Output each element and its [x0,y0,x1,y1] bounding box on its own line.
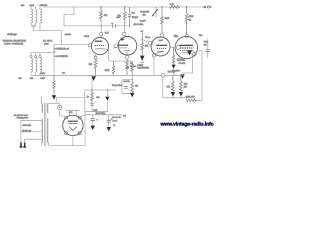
resistor R 47k feedback [131,61,134,75]
node dot junction x186 [186,6,188,8]
svg-text:+: + [54,51,56,54]
tube V2 cathode [123,51,130,56]
wire B+ top rail [44,6,203,8]
svg-text:+punto: +punto [65,33,72,36]
tube V5 rectifier envelope [63,115,83,135]
wire V2 plate lead [123,26,125,32]
svg-text:point: point [44,42,49,45]
capacitor bypass in loop [124,87,128,89]
svg-text:0.1: 0.1 [189,18,193,21]
wire tap stubs [31,45,54,56]
pin circle V2 grid [114,44,118,48]
pin circle V2 plate [123,32,126,35]
tube V3 envelope [151,37,170,56]
svg-text:1M: 1M [143,14,146,17]
wire grid line to V1 [54,44,88,47]
svg-text:+2 4A5: +2 4A5 [178,62,185,65]
svg-text:TENSIONI RILEVATE IN: TENSIONI RILEVATE IN [3,40,27,43]
capacitor filter C1 [92,115,94,119]
svg-text:+2k: +2k [135,84,139,87]
svg-text:[+: [+ [114,124,117,127]
pin circle V4 grid [176,45,180,49]
pin circle V2 cathode [125,55,129,59]
resistor R bleeder2 [180,75,183,91]
svg-text:6SJ7: 6SJ7 [159,39,164,42]
svg-text:On Treble: On Treble [123,80,130,83]
tube V4 screen [180,47,194,49]
ground C1 [91,126,95,130]
wire rail drop x74 jog x64 [64,7,74,26]
tube V1 cathode [95,48,108,51]
wire plate bus y25.9 [64,25,130,27]
node dot [100,6,101,7]
resistor R cathode V1 [94,55,97,76]
tube V3 plate [156,44,167,46]
svg-text:+6,3v: +6,3v [40,72,46,75]
resistor R grid stopper V3 100k [161,7,164,34]
svg-text:7W+: 7W+ [204,41,209,44]
T2 secondary winding [47,104,48,143]
svg-text:0.05: 0.05 [105,32,110,35]
svg-text:(1 Watt): (1 Watt) [177,58,184,61]
svg-text:+1: +1 [111,22,113,25]
tube V2 envelope [118,37,137,56]
capacitor filter C2 [108,115,110,120]
svg-text:1k: 1k [87,95,90,98]
pin circle V3 grid [149,41,153,45]
tube V3 cathode [155,51,164,54]
svg-text:+: + [96,119,98,122]
svg-text:5 e 4 = F: 5 e 4 = F [113,116,122,119]
wire main bus y75.3 [31,74,185,76]
tube V4 grid [180,50,194,52]
wire windings to bus [31,73,40,76]
svg-text:350Ω 5W: 350Ω 5W [186,95,196,98]
wire B+ from rectifier [81,115,122,117]
T2 core [44,103,46,147]
svg-text:+0k: +0k [30,77,34,80]
wire to V3 grid [142,40,148,43]
resistor R filter x92 [91,90,94,104]
resistor R series 2.2k on rail [170,6,180,9]
ground arrow on bus [91,76,96,81]
pin circles V5 [65,116,68,119]
wire loop left branch [122,80,132,94]
wire mains tap3 [25,138,42,140]
svg-text:50+60 c/s: 50+60 c/s [22,130,32,133]
wire feed from left [56,97,85,99]
svg-text:47k: 47k [104,14,108,17]
capacitor C 500pF x129.5 [128,7,131,26]
wire anode leads above V5 [66,110,80,115]
svg-text:A-VDC POSIZIONE: A-VDC POSIZIONE [4,43,24,46]
wire mains left down [21,120,25,142]
node dot [124,6,125,7]
tube V4 cathode [183,53,193,54]
ground bias [52,95,56,99]
resistor R 350 series [185,98,187,101]
svg-text:Changeover: Changeover [17,117,29,120]
wire mains tap1 [21,119,42,121]
svg-text:2 e 8: 2 e 8 [113,120,118,123]
svg-text:www.vintage-radio.info: www.vintage-radio.info [160,122,214,128]
pin circle V1 cathode [94,56,97,59]
wire V5 bottom lead [72,136,74,146]
svg-text:«Kellogg»: «Kellogg» [7,33,18,36]
resistor R 47k plate load V2 [124,7,127,26]
svg-text:0.1uF: 0.1uF [140,20,146,23]
ground hum network [130,93,134,97]
svg-text:+C: +C [140,30,143,33]
resistor R grid V4 220k [185,7,188,35]
resistor R 220k feedback [112,61,115,75]
node dot plate junction [142,39,143,40]
svg-text:100 Volts: 100 Volts [23,124,32,127]
wire bottom return [50,112,85,146]
tube V2 plate [119,44,129,46]
wire B+ drop to filter [91,75,93,90]
wire third winding down [39,23,41,31]
tube V1 plate [95,40,103,42]
capacitor filter polarized x92 [90,104,94,106]
wire T2 sec top to jack [48,102,50,104]
svg-text:0.5: 0.5 [204,43,208,46]
svg-text:100k: 100k [165,17,170,20]
pin circle V3 cathode [152,54,156,58]
resistor R shared cathode 1W [170,46,174,48]
resistor R hum x132 [131,82,134,92]
tube V1 envelope [91,38,108,55]
pin circle V4 cathode [192,52,196,56]
svg-text:220k: 220k [189,15,194,18]
svg-text:med.: med. [30,4,35,7]
pin circle V4 top [185,35,188,38]
interstage transformer T1 lower windings [31,58,42,72]
svg-text:+2x: +2x [96,96,100,99]
wire lower bus [163,97,187,99]
potentiometer VOLUME 1M [152,7,158,18]
svg-text:20uF 450v: 20uF 450v [96,112,107,115]
svg-text:+ LOUDSPKR: + LOUDSPKR [54,55,68,58]
wire bus y30.5 [33,30,61,32]
svg-text:Se «Dual» say*: Se «Dual» say* [14,114,28,117]
feedback network box top wire [109,60,133,62]
tube V5 filament [69,127,77,131]
svg-text:5W: 5W [184,85,188,88]
wire drop x132 [131,75,133,82]
tube V5 anode plates [68,120,78,122]
wire V3 cathode to bus [153,57,155,75]
jack pilot circle [58,105,62,109]
svg-text:+1k: +1k [184,83,188,86]
wire mains tap2 [21,131,42,133]
filter RC box [56,75,116,112]
plate chain resistor between V2 V3 [141,33,144,55]
tone cap branch right [204,39,210,59]
svg-text:+ B: + B [123,115,127,118]
pin circles winding taps [30,56,32,58]
svg-text:CALIBRATE: CALIBRATE [137,66,149,69]
svg-text:catodo: catodo [130,65,137,68]
capacitor electrolytic cathode bypass V4 [187,50,192,55]
capacitor electrolytic x107 [106,90,108,97]
wire filter bottom [85,111,108,113]
wire box left [108,50,110,61]
wire filter top [85,89,116,91]
svg-text:+«TREBLE» off: +«TREBLE» off [54,47,69,50]
capacitor electrolytic shared [172,65,176,69]
resistor R cathode V2 [126,59,129,75]
svg-text:+250 B+: +250 B+ [40,4,49,7]
node dot [101,25,102,26]
T2 primary winding [42,104,43,113]
svg-text:Trasf. driver: Trasf. driver [112,84,123,87]
resistor R 47k plate load V1 [100,7,103,22]
bleeder network right [163,51,202,102]
tube V4 plate [180,44,194,46]
capacitor C-coupling series x114 [113,24,116,28]
tube V4 output envelope [175,36,197,58]
svg-text:47k: 47k [166,86,170,89]
terminal output arrow + [202,6,212,8]
svg-text:VOLUME: VOLUME [140,10,150,13]
interstage transformer T1 top windings [31,7,42,27]
svg-text:2.2k: 2.2k [170,3,175,6]
wire V4 cathode return [183,56,194,73]
svg-text:Triodi: Triodi [84,35,90,38]
wire V1 plate lead [100,22,102,32]
svg-text:22k: 22k [145,44,149,47]
tube V2 top cap blob [121,37,125,40]
svg-text:a-b: a-b [62,71,66,74]
svg-text:500pF: 500pF [132,16,139,19]
svg-text:+.05: +.05 [116,16,119,19]
wire from terminal down [162,77,164,98]
hum balance network below bus [112,75,139,97]
svg-text:5Y3: 5Y3 [69,111,73,114]
pin circle V3 top [160,34,163,37]
svg-text:I.C. +VDC: I.C. +VDC [43,39,53,42]
power transformer T2 [42,97,49,147]
svg-text:+0uF: +0uF [40,77,46,80]
tube V2 grid [119,47,126,49]
svg-text:alto: alto [21,4,25,7]
pin circle V1 grid input [88,44,91,47]
tube V3 screen [157,47,166,49]
svg-text:220k: 220k [105,69,110,72]
wire center tap down [32,26,34,30]
resistor R bleeder1 [172,75,175,91]
capacitor electrolytic chain [140,56,145,61]
wire grid leak vertical [53,45,55,76]
pin circle V1 plate [100,32,103,35]
terminal circle junction on bus [161,74,165,78]
svg-text:+0k: +0k [18,77,22,80]
wire jack to rectifier [60,110,65,116]
svg-text:+0k 5W +: +0k 5W + [172,70,182,73]
wire jack top [49,98,60,106]
mains plug [20,143,26,148]
svg-text:silver mica: silver mica [134,23,144,26]
svg-text:+B+: +B+ [199,34,204,37]
wire B+ riser right [199,51,202,101]
ground C2 [107,127,111,131]
svg-text:1M: 1M [132,12,135,15]
wire grid drop [61,31,63,45]
svg-text:1k5: 1k5 [89,63,93,66]
svg-text:Tens.: Tens. [145,36,150,39]
tube V1 grid [95,44,105,46]
resistor R bias x54 [53,75,56,95]
ground V4 cathode [180,74,184,78]
wire filter left [84,90,86,112]
